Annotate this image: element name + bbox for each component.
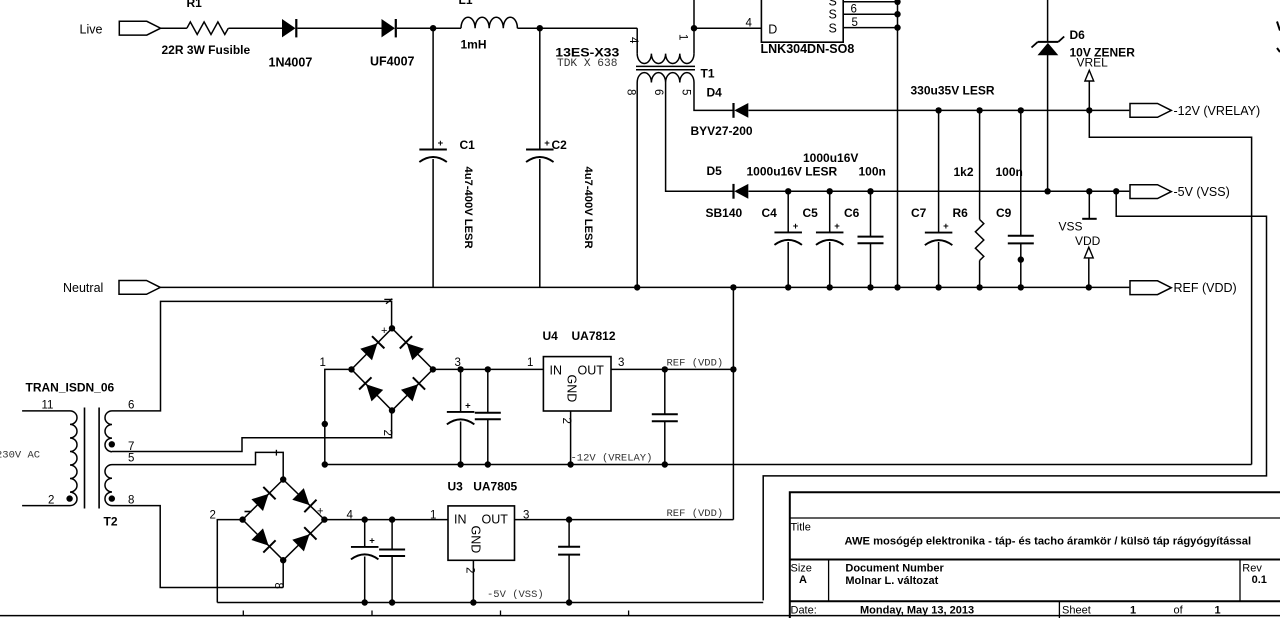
junction B2 right <box>321 516 327 522</box>
svg-text:4: 4 <box>627 37 639 44</box>
svg-text:Sheet: Sheet <box>1062 604 1091 616</box>
svg-text:IN: IN <box>550 363 563 377</box>
capacitor C6 <box>858 237 884 244</box>
svg-text:VSS: VSS <box>1059 219 1083 233</box>
junction B1 left <box>348 366 354 372</box>
svg-text:-5V (VSS): -5V (VSS) <box>1174 185 1230 199</box>
junction C5 top <box>827 188 833 194</box>
svg-text:1: 1 <box>677 34 689 40</box>
sheet border tick 2 <box>371 611 373 616</box>
wire Live to R1 <box>161 27 187 29</box>
title block outer frame <box>790 492 1280 618</box>
wire C4 bottom lead <box>787 242 789 287</box>
svg-text:5: 5 <box>852 17 858 29</box>
junction C6 bottom <box>867 284 873 290</box>
junction U4 input elytic bottom <box>457 461 463 467</box>
svg-text:Title: Title <box>791 522 811 534</box>
wire U4 input ceramic bottom <box>487 419 489 464</box>
junction T1 pin1 / LNK D <box>691 25 697 31</box>
junction R6 top <box>976 107 982 113</box>
junction C9 bottom <box>1018 284 1024 290</box>
svg-text:Date:: Date: <box>791 604 817 616</box>
svg-text:8: 8 <box>625 89 637 95</box>
junction C6 top <box>867 188 873 194</box>
svg-text:L1: L1 <box>459 0 473 7</box>
capacitor C4 <box>774 221 802 245</box>
svg-text:100n: 100n <box>996 165 1023 179</box>
wire B1 pin1 to -12V rail <box>325 369 352 464</box>
diode 1N4007 <box>282 19 296 37</box>
junction C7 top <box>935 107 941 113</box>
svg-text:TDK X 638: TDK X 638 <box>557 58 617 70</box>
wire U3 input ceramic bottom <box>391 556 393 603</box>
wire B2 pin2 to -5V rail <box>217 520 242 603</box>
svg-text:1: 1 <box>527 357 533 369</box>
svg-text:OUT: OUT <box>578 363 605 377</box>
T2 core <box>85 408 100 509</box>
junction C9 top <box>1018 107 1024 113</box>
junction C4 top <box>785 188 791 194</box>
svg-text:D6: D6 <box>1070 28 1086 42</box>
junction U3 input cap1 <box>362 516 368 522</box>
LNK S pin stub 3 (pin 5) <box>843 27 897 29</box>
capacitor at U3 input (electrolytic) <box>351 535 379 559</box>
wire C6 bottom lead <box>870 243 872 287</box>
svg-text:2: 2 <box>210 509 216 521</box>
junction U3 GND on rail <box>470 599 476 605</box>
svg-text:+: + <box>369 535 375 546</box>
bridge B2 outline <box>243 480 325 561</box>
svg-text:VREL: VREL <box>1077 56 1109 70</box>
junction REF drop on U4 out wire <box>730 366 736 372</box>
junction U4 input cap2 <box>485 366 491 372</box>
bridge B1 diode right-top <box>407 343 424 360</box>
svg-text:1: 1 <box>1130 604 1136 616</box>
wire T2 pin8 to bridge B2 pin8 <box>112 506 283 588</box>
wire U3 OUT to REF drop <box>515 519 734 521</box>
wire U3 input elytic top <box>364 520 366 547</box>
junction source net on REF rail <box>894 284 900 290</box>
svg-text:330u35V LESR: 330u35V LESR <box>911 83 995 97</box>
svg-text:D4: D4 <box>707 86 723 100</box>
svg-text:U3: U3 <box>448 480 464 494</box>
title block divider size column <box>828 560 830 602</box>
cut fragment right edge 1 <box>1277 22 1280 31</box>
junction B2 left <box>239 516 245 522</box>
svg-text:C9: C9 <box>996 206 1012 220</box>
wire REF rail down to regulators <box>732 287 734 519</box>
wire U3 input ceramic top <box>391 520 393 550</box>
T1 primary left lead <box>636 28 638 53</box>
junction node C1 top <box>430 25 436 31</box>
wire U4 out cap bottom lead <box>664 421 666 464</box>
svg-text:UF4007: UF4007 <box>370 54 415 68</box>
title block line under title row <box>790 559 1280 561</box>
junction B2 top <box>280 476 286 482</box>
svg-text:TRAN_ISDN_06: TRAN_ISDN_06 <box>26 381 115 395</box>
junction C7 bottom <box>935 284 941 290</box>
svg-text:C7: C7 <box>911 206 927 220</box>
resistor R1 <box>187 22 228 35</box>
svg-text:Rev: Rev <box>1242 562 1262 574</box>
bridge B1 diode bottom-right <box>401 384 418 401</box>
node on C9 lower lead <box>1018 256 1024 262</box>
svg-text:U4: U4 <box>543 329 559 343</box>
regulator U4 box <box>543 357 611 411</box>
diode D5 <box>734 184 749 199</box>
junction -5V feedback tap <box>1113 188 1119 194</box>
capacitor at U3 input (ceramic) <box>379 550 405 557</box>
cut fragment right edge 2 <box>1277 48 1280 52</box>
wire C1 top lead <box>432 28 434 149</box>
svg-text:1: 1 <box>430 509 436 521</box>
svg-text:2: 2 <box>48 495 54 507</box>
title block divider sheet column <box>1058 601 1060 618</box>
svg-text:3: 3 <box>618 357 624 369</box>
svg-text:BYV27-200: BYV27-200 <box>691 124 753 138</box>
junction S stub 1 <box>894 0 900 5</box>
svg-text:S: S <box>829 22 837 36</box>
svg-text:VDD: VDD <box>1075 234 1101 248</box>
sheet border tick 1 <box>242 611 244 616</box>
wire 1N4007 to UF4007 <box>298 27 383 29</box>
svg-text:8: 8 <box>128 494 134 506</box>
wire U3 GND to -5V rail <box>472 560 474 602</box>
svg-text:Molnar L. változat: Molnar L. változat <box>845 575 938 587</box>
junction B1 bottom <box>389 407 395 413</box>
junction B2 bottom <box>280 557 286 563</box>
wire UF4007 to node C1 <box>397 27 433 29</box>
wire U4 OUT to REF drop <box>611 368 733 370</box>
svg-text:4u7-400V LESR: 4u7-400V LESR <box>582 167 594 249</box>
svg-text:4: 4 <box>746 18 753 30</box>
junction U4 GND on rail <box>567 461 573 467</box>
wire VSS tap <box>1088 191 1090 219</box>
svg-text:0.1: 0.1 <box>1252 574 1267 586</box>
wire T2 pin7 to bridge B1 pin2 <box>112 411 392 452</box>
resistor R6 <box>975 220 983 261</box>
svg-text:5: 5 <box>128 452 134 464</box>
svg-text:R6: R6 <box>953 206 969 220</box>
svg-text:LNK304DN-SO8: LNK304DN-SO8 <box>761 42 855 56</box>
wire -5V bottom rail <box>217 602 763 604</box>
svg-text:of: of <box>1174 604 1184 616</box>
svg-text:GND: GND <box>565 375 579 403</box>
wire node to L1 <box>433 27 461 29</box>
wire R1 to D 1N4007 <box>228 27 282 29</box>
bridge B1 diode bottom-left <box>366 384 383 401</box>
svg-text:-5V (VSS): -5V (VSS) <box>487 589 544 601</box>
sheet border tick 3 <box>500 611 502 616</box>
svg-text:8: 8 <box>272 583 284 589</box>
wire C2 bottom lead <box>539 159 541 287</box>
wire C7 top lead <box>938 110 940 232</box>
wire L1 to node C2 <box>517 27 539 29</box>
connector Live <box>119 21 160 35</box>
junction T1 pin8 on REF rail <box>634 284 640 290</box>
connector Neutral <box>119 281 160 295</box>
sheet border bottom <box>0 615 1280 617</box>
svg-text:C1: C1 <box>460 138 476 152</box>
wire U4 input elytic leads <box>460 369 462 412</box>
wire C9 top lead <box>1020 110 1022 235</box>
junction U4 out cap <box>662 366 668 372</box>
wire T1 pin1 up to top edge <box>693 0 695 28</box>
power bar VSS <box>1082 218 1097 220</box>
wire C2 top lead <box>539 28 541 149</box>
bridge B1 diode left-top <box>360 343 377 360</box>
junction B1 right <box>430 366 436 372</box>
T1 pin5 lead down to D4 wire <box>694 83 734 111</box>
capacitor at U3 output <box>558 547 580 555</box>
capacitor at U4 input (electrolytic) <box>447 400 475 424</box>
svg-text:D: D <box>768 22 777 36</box>
wire U4 out cap top lead <box>664 369 666 414</box>
wire C1 bottom lead <box>432 159 434 287</box>
svg-text:+: + <box>544 138 550 149</box>
junction U3 out cap <box>566 516 572 522</box>
svg-text:+: + <box>793 221 799 232</box>
svg-text:Neutral: Neutral <box>63 281 103 295</box>
T1 primary right lead <box>693 28 695 53</box>
bridge B2 diode bottom-left <box>251 528 268 545</box>
svg-text:-12V (VRELAY): -12V (VRELAY) <box>1174 104 1261 118</box>
power arrow VREL <box>1085 70 1094 81</box>
svg-text:2: 2 <box>381 430 393 436</box>
svg-text:+: + <box>943 221 949 232</box>
wire T2 pin5 to bridge B2 pin1 <box>112 452 283 479</box>
tick at B1 plus corner <box>384 299 392 304</box>
svg-text:REF (VDD): REF (VDD) <box>667 508 724 520</box>
T1 core <box>636 66 695 69</box>
wire U3 out cap top lead <box>568 520 570 547</box>
svg-text:OUT: OUT <box>482 513 509 527</box>
T2 secondary winding 6-7 <box>105 411 112 452</box>
transformer T1 secondary winding <box>637 73 694 83</box>
wire B2 plus to U3 IN <box>324 519 448 521</box>
diode D4 <box>734 103 749 118</box>
wire C4 top lead <box>787 191 789 232</box>
junction C5 bottom <box>827 284 833 290</box>
junction VDD on REF rail <box>1086 284 1092 290</box>
T2 pin11 lead <box>22 410 70 412</box>
title block line under top strip <box>790 517 1280 519</box>
capacitor C5 <box>816 221 844 245</box>
wire U4 input elytic bottom <box>460 422 462 465</box>
wire C5 top lead <box>829 191 831 232</box>
wire U4 GND to -12V rail <box>570 411 572 465</box>
svg-text:+: + <box>317 505 323 517</box>
junction U3 input cap2 <box>389 516 395 522</box>
wire -5V net to right edge down <box>763 191 1266 600</box>
junction U4 input ceramic bottom <box>485 461 491 467</box>
capacitor C1 <box>419 138 447 162</box>
junction U4 input cap1 <box>457 366 463 372</box>
junction -12V rail left end <box>322 461 328 467</box>
junction R6 bottom <box>976 284 982 290</box>
inductor L1 <box>461 17 517 28</box>
bridge B2 diode left-top <box>251 494 268 511</box>
wire REF rail (neutral) <box>160 286 1129 288</box>
wire -12V net to right edge down <box>1089 110 1251 464</box>
svg-text:11: 11 <box>42 400 54 412</box>
junction VSS tap <box>1086 188 1092 194</box>
svg-text:+: + <box>438 138 444 149</box>
sheet border tick 4 <box>628 611 630 616</box>
svg-text:Size: Size <box>791 562 812 574</box>
svg-text:100n: 100n <box>859 165 886 179</box>
wire C9 bottom lead <box>1020 243 1022 287</box>
zener D6 <box>1032 37 1065 56</box>
wire -12V rail <box>749 109 1130 111</box>
svg-text:6: 6 <box>128 400 134 412</box>
svg-text:1000u16V: 1000u16V <box>803 151 858 165</box>
svg-text:UA7812: UA7812 <box>572 329 616 343</box>
junction U4 out cap bottom <box>662 461 668 467</box>
svg-text:C4: C4 <box>762 206 778 220</box>
wire R6 top lead <box>979 110 981 219</box>
svg-text:1k2: 1k2 <box>954 165 974 179</box>
svg-text:Live: Live <box>80 22 103 36</box>
svg-text:C6: C6 <box>844 206 860 220</box>
svg-text:22R 3W Fusible: 22R 3W Fusible <box>162 43 251 57</box>
svg-text:+: + <box>381 325 387 337</box>
transformer T1 primary winding <box>637 54 694 64</box>
ic LNK304DN-SO8 box <box>761 0 843 42</box>
junction S stub 2 <box>894 11 900 17</box>
svg-text:1: 1 <box>1215 604 1221 616</box>
T1 pin8 lead down to REF rail <box>636 83 638 288</box>
wire R6 bottom lead <box>979 261 981 288</box>
svg-text:T2: T2 <box>104 515 118 529</box>
svg-text:R1: R1 <box>187 0 203 10</box>
T1 pin6 lead down to D5 wire <box>666 83 734 192</box>
T2 pin2 lead <box>22 505 70 507</box>
svg-text:T1: T1 <box>701 67 715 81</box>
wire C6 top lead <box>870 191 872 236</box>
title block divider rev column <box>1239 560 1241 602</box>
capacitor C2 <box>526 138 554 162</box>
svg-text:C2: C2 <box>552 138 568 152</box>
svg-text:C5: C5 <box>803 206 819 220</box>
wire U3 input elytic bottom <box>364 557 366 603</box>
T2 secondary winding 5-8 <box>105 465 112 506</box>
svg-text:1000u16V LESR: 1000u16V LESR <box>747 165 838 179</box>
title block line under size row <box>790 600 1280 602</box>
wire D6 cathode up to top edge <box>1047 0 1049 42</box>
svg-text:AWE mosógép elektronika - táp-: AWE mosógép elektronika - táp- és tacho … <box>845 536 1252 548</box>
svg-text:+: + <box>465 400 471 411</box>
svg-text:1N4007: 1N4007 <box>269 55 313 69</box>
wire T2 pin6 to bridge B1 plus <box>112 301 392 411</box>
svg-text:REF (VDD): REF (VDD) <box>667 358 724 370</box>
svg-text:S: S <box>829 8 837 22</box>
svg-text:1: 1 <box>320 357 326 369</box>
capacitor C7 <box>925 221 953 245</box>
svg-text:GND: GND <box>468 526 482 554</box>
svg-text:IN: IN <box>454 513 467 527</box>
wire VREL to -12V rail <box>1088 81 1090 110</box>
wire VDD to REF rail <box>1088 258 1090 288</box>
junction B1 top <box>389 325 395 331</box>
wire node C2 to T1 pin4 <box>540 27 637 29</box>
LNK S pin stub 2 (pin 6) <box>843 13 897 15</box>
svg-text:REF (VDD): REF (VDD) <box>1174 281 1237 295</box>
svg-text:D5: D5 <box>707 164 723 178</box>
svg-text:5: 5 <box>680 89 692 95</box>
T2 secondary polarity dot pin7 <box>109 441 115 447</box>
junction S stub 3 <box>894 24 900 30</box>
svg-text:1mH: 1mH <box>461 38 487 52</box>
bridge B2 diode bottom-right <box>292 534 309 551</box>
tick at B2 top corner <box>275 450 277 456</box>
junction C4 bottom <box>785 284 791 290</box>
wire C7 bottom lead <box>938 242 940 287</box>
svg-text:+: + <box>834 221 840 232</box>
junction U3 input elytic bottom <box>362 599 368 605</box>
wire B1 pin3 to U4 IN <box>433 368 544 370</box>
svg-text:6: 6 <box>851 3 857 15</box>
wire B2 bottom to pin8 net <box>282 560 284 587</box>
junction U3 out cap bottom <box>566 599 572 605</box>
capacitor at U4 input (ceramic) <box>475 413 501 420</box>
T2 primary winding <box>70 411 77 506</box>
power arrow VDD <box>1084 247 1093 258</box>
svg-text:Document Number: Document Number <box>845 562 944 574</box>
wire D6 anode down to -5V rail <box>1047 55 1049 191</box>
junction VREL on -12V rail <box>1086 107 1092 113</box>
svg-text:SB140: SB140 <box>706 206 743 220</box>
regulator U3 box <box>448 506 515 560</box>
svg-text:230V AC: 230V AC <box>0 450 40 462</box>
wire -12V bottom rail <box>325 464 1252 466</box>
B2 minus mark <box>245 511 252 513</box>
wire -5V rail <box>749 190 1130 192</box>
junction REF drop on REF rail <box>730 284 736 290</box>
junction U3 input ceramic bottom <box>389 599 395 605</box>
LNK S pin stub 1 <box>843 1 897 3</box>
bridge B2 diode right-top <box>292 488 309 505</box>
diode UF4007 <box>382 19 396 37</box>
connector -5V (VSS) <box>1130 185 1171 199</box>
capacitor C9 <box>1008 236 1034 244</box>
svg-text:-12V (VRELAY): -12V (VRELAY) <box>571 453 653 465</box>
svg-text:A: A <box>799 574 807 586</box>
wire C5 bottom lead <box>829 242 831 287</box>
T2 secondary polarity dot pin8 <box>109 495 115 501</box>
connector -12V (VRELAY) <box>1130 104 1171 118</box>
connector REF (VDD) <box>1130 281 1171 295</box>
node on B1 pin1 drop <box>322 421 328 427</box>
wire U3 out cap bottom lead <box>568 555 570 603</box>
svg-text:4u7-400V LESR: 4u7-400V LESR <box>462 167 474 249</box>
wire U4 input ceramic top <box>487 369 489 412</box>
svg-text:UA7805: UA7805 <box>473 480 517 494</box>
wire T1 pin1 to LNK pin4 <box>694 27 761 29</box>
wire LNK source net down to REF rail <box>897 0 899 287</box>
T2 primary polarity dot <box>66 495 72 501</box>
junction node C2 top <box>537 25 543 31</box>
junction D6 on -5V rail <box>1044 188 1050 194</box>
svg-text:6: 6 <box>652 89 664 95</box>
svg-text:Monday, May 13, 2013: Monday, May 13, 2013 <box>860 604 974 616</box>
capacitor at U4 output <box>652 414 678 421</box>
bridge B1 outline <box>352 328 433 410</box>
